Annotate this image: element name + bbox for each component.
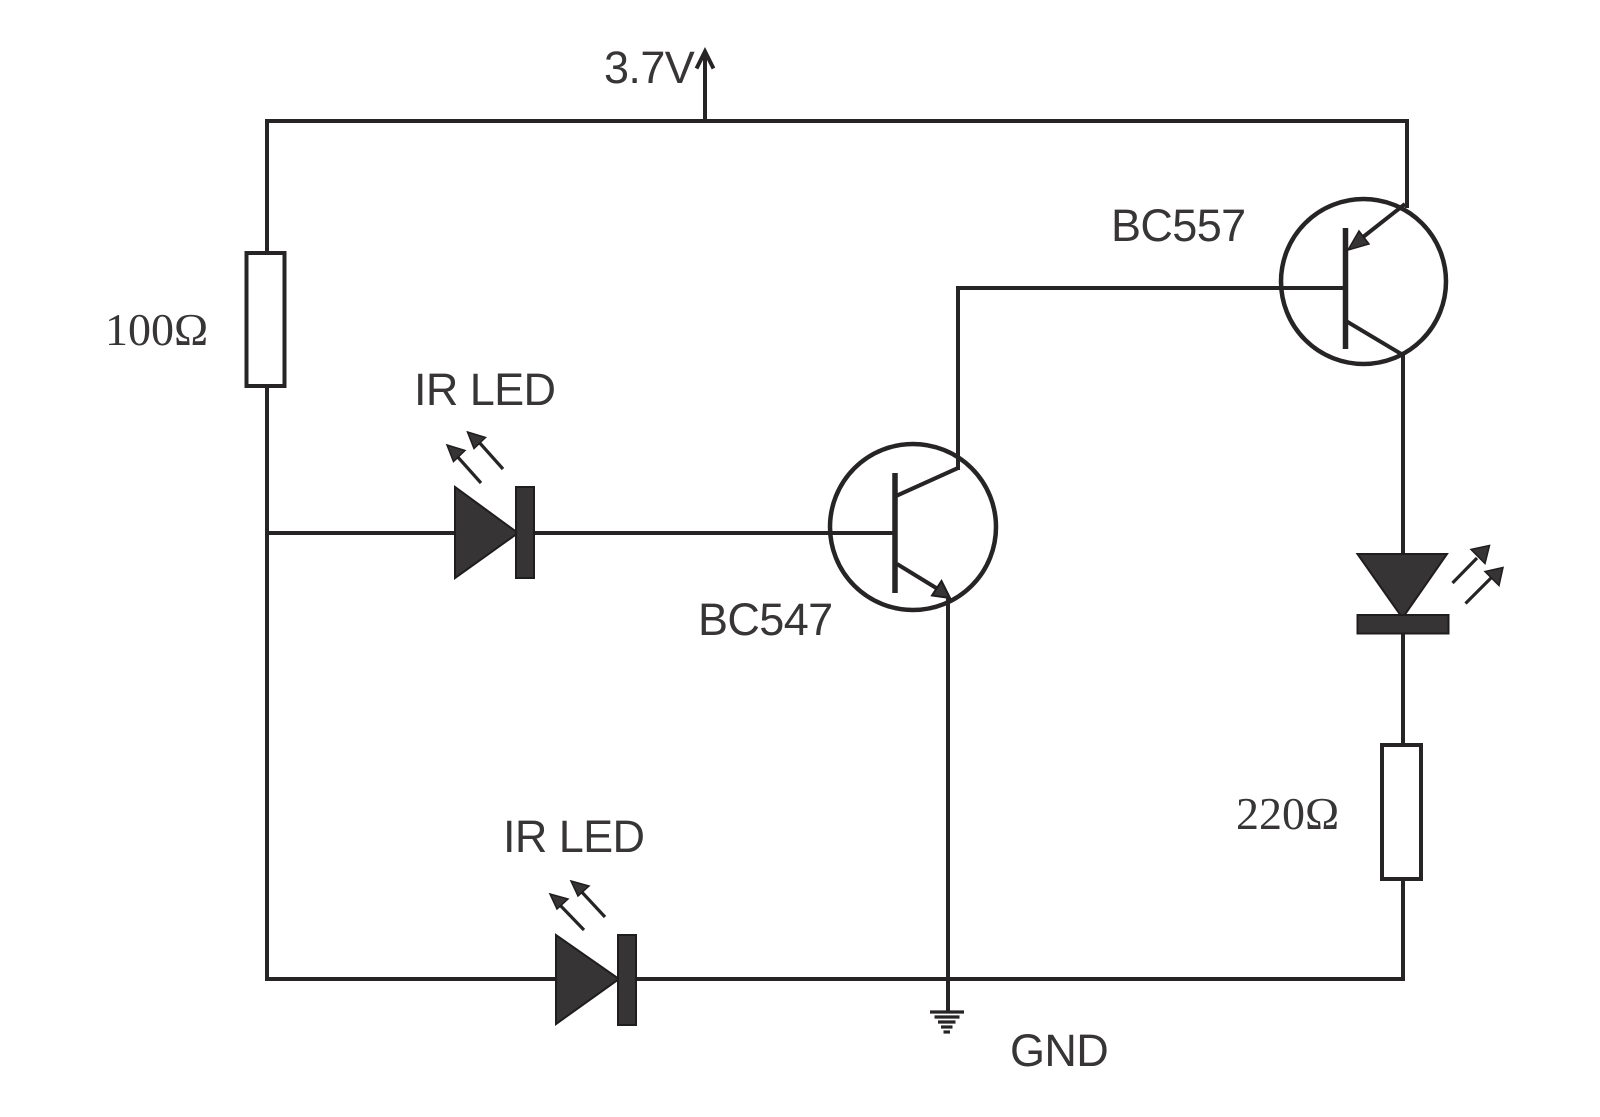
diode D3 LED right <box>1358 554 1449 634</box>
resistor R2 220ohm <box>1382 745 1421 879</box>
ground GND <box>930 1012 964 1032</box>
svg-text:GND: GND <box>1010 1025 1108 1076</box>
wire D3 to R2 <box>1401 634 1405 743</box>
wire D1 to Q1 base <box>533 531 895 535</box>
wire R2 to bottom rail <box>1401 880 1405 979</box>
svg-text:IR LED: IR LED <box>414 364 555 415</box>
D3 emission arrows <box>1453 546 1504 604</box>
wire top rail <box>267 119 1407 123</box>
D2 emission arrows <box>550 881 605 930</box>
svg-text:3.7V: 3.7V <box>604 42 695 93</box>
svg-text:220Ω: 220Ω <box>1236 788 1339 839</box>
resistor R1 100ohm <box>247 253 285 386</box>
svg-text:100Ω: 100Ω <box>105 304 208 355</box>
diode D1 IR LED <box>455 487 534 578</box>
wire Q1 collector up <box>956 288 960 468</box>
wire Q1 collector to Q2 base <box>958 286 1346 290</box>
wire left rail <box>265 121 269 979</box>
svg-text:IR LED: IR LED <box>503 811 644 862</box>
D1 emission arrows <box>447 432 503 483</box>
wire Q2 emitter riser <box>1405 121 1409 206</box>
wire bottom rail <box>267 977 1403 981</box>
svg-text:BC547: BC547 <box>698 594 833 645</box>
transistor Q2 BC557 <box>1281 199 1446 364</box>
transistor Q1 BC547 <box>830 444 996 610</box>
wire Q1 emitter down to gnd <box>946 596 950 1011</box>
svg-text:BC557: BC557 <box>1111 200 1246 251</box>
power arrow 3.7V <box>697 52 714 122</box>
wire base left segment <box>267 531 456 535</box>
diode D2 IR LED bottom <box>556 935 636 1025</box>
wire Q2 collector down <box>1401 354 1405 555</box>
